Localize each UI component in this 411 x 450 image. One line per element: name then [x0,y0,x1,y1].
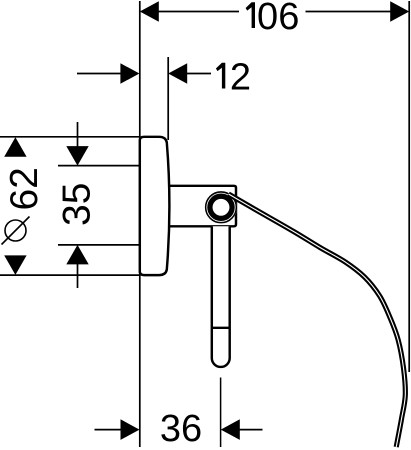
svg-text:35: 35 [56,183,99,226]
dimension 12 left tail [77,73,121,75]
svg-text:62: 62 [3,167,46,210]
extension line y=165.6 for dim 35 [58,165,139,167]
dimension 35 top arrowhead [66,146,88,166]
svg-text:6: 6 [278,0,299,38]
dimension 36 right tail [239,429,263,431]
dimension O62 bottom arrowhead [4,255,26,275]
svg-text:2: 2 [230,57,251,99]
dimension 106 label [246,2,255,28]
dimension 35 bottom tail [77,263,79,288]
dimension 35 bottom arrowhead [66,245,88,265]
dimension 35 top tail [77,122,79,148]
dimension 36 left tail [95,429,122,431]
dimension 106 line segments [158,11,239,13]
pivot coil thick ring [210,196,232,218]
tube joint line [212,327,230,329]
dimension 12 right tail [186,73,211,75]
extension line y=275.1 bottom of plate [0,274,139,276]
wall plate rosette side view [140,137,170,275]
pivot coil outer ring [206,192,237,223]
dimension 36 left arrowhead [121,419,140,440]
extension line y=136.8 top of plate [0,136,139,138]
extension line y=244.9 for dim 35 [58,244,139,246]
dimension O62 top arrowhead [4,137,26,157]
dimension O62 diameter symbol [5,220,26,241]
dimension 12 label [216,63,225,89]
svg-text:0: 0 [257,0,278,38]
dimension 106 left arrowhead [140,1,159,22]
dimension 106 right arrowhead [390,1,409,22]
dimension 12 right arrowhead [168,63,187,84]
bracket arm [168,186,236,227]
extension line right x=409.2 [408,1,410,372]
dimension 36 right arrowhead [221,419,240,440]
center line of roll arm x=220.6 [220,378,222,448]
dimension 12 left arrowhead [120,63,139,84]
roll holder tube [212,226,230,367]
spring wire [229,194,406,447]
svg-text:36: 36 [160,408,202,450]
extension line x=168.2 for dim 12 [167,57,169,140]
extension line left wall x=139.8 [139,1,141,447]
pivot coil white base [205,191,237,223]
